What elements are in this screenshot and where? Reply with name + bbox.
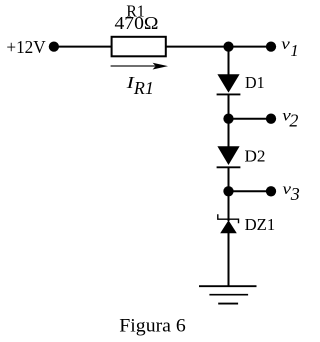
resistor R1 xyxy=(112,37,166,57)
svg-text:v3: v3 xyxy=(283,181,300,204)
wire v1 stub xyxy=(229,46,272,48)
svg-text:D1: D1 xyxy=(245,73,265,92)
svg-text:v2: v2 xyxy=(282,107,298,130)
svg-text:Figura 6: Figura 6 xyxy=(119,315,186,336)
wire junction to D1 xyxy=(228,47,230,76)
svg-text:470Ω: 470Ω xyxy=(115,13,159,33)
diode D1 xyxy=(217,74,241,94)
wire main horizontal xyxy=(54,46,229,48)
terminal dot v3 xyxy=(266,186,276,196)
terminal dot v2 xyxy=(266,114,276,124)
terminal dot v1 xyxy=(266,41,276,51)
diode D2 xyxy=(217,146,241,167)
wire D2 to v3 xyxy=(228,167,230,191)
wire v3 stub xyxy=(229,190,272,192)
wire v2 to D2 xyxy=(228,119,230,148)
svg-text:D2: D2 xyxy=(245,147,266,166)
svg-text:DZ1: DZ1 xyxy=(245,215,276,234)
wire v3 to DZ1 xyxy=(228,191,230,221)
ground xyxy=(199,286,257,303)
wire v2 stub xyxy=(229,118,272,120)
current arrow IR1 xyxy=(111,63,168,70)
terminal dot +12V xyxy=(49,41,59,51)
svg-text:IR1: IR1 xyxy=(125,73,154,98)
wire D1 to v2 xyxy=(228,94,230,118)
zener diode DZ1 xyxy=(218,214,239,233)
wire DZ1 to ground xyxy=(228,233,230,286)
junction node v1 xyxy=(223,41,233,51)
svg-text:v1: v1 xyxy=(281,36,298,60)
svg-text:+12V: +12V xyxy=(6,37,45,57)
junction node v3 xyxy=(223,186,233,196)
junction node v2 xyxy=(223,114,233,124)
